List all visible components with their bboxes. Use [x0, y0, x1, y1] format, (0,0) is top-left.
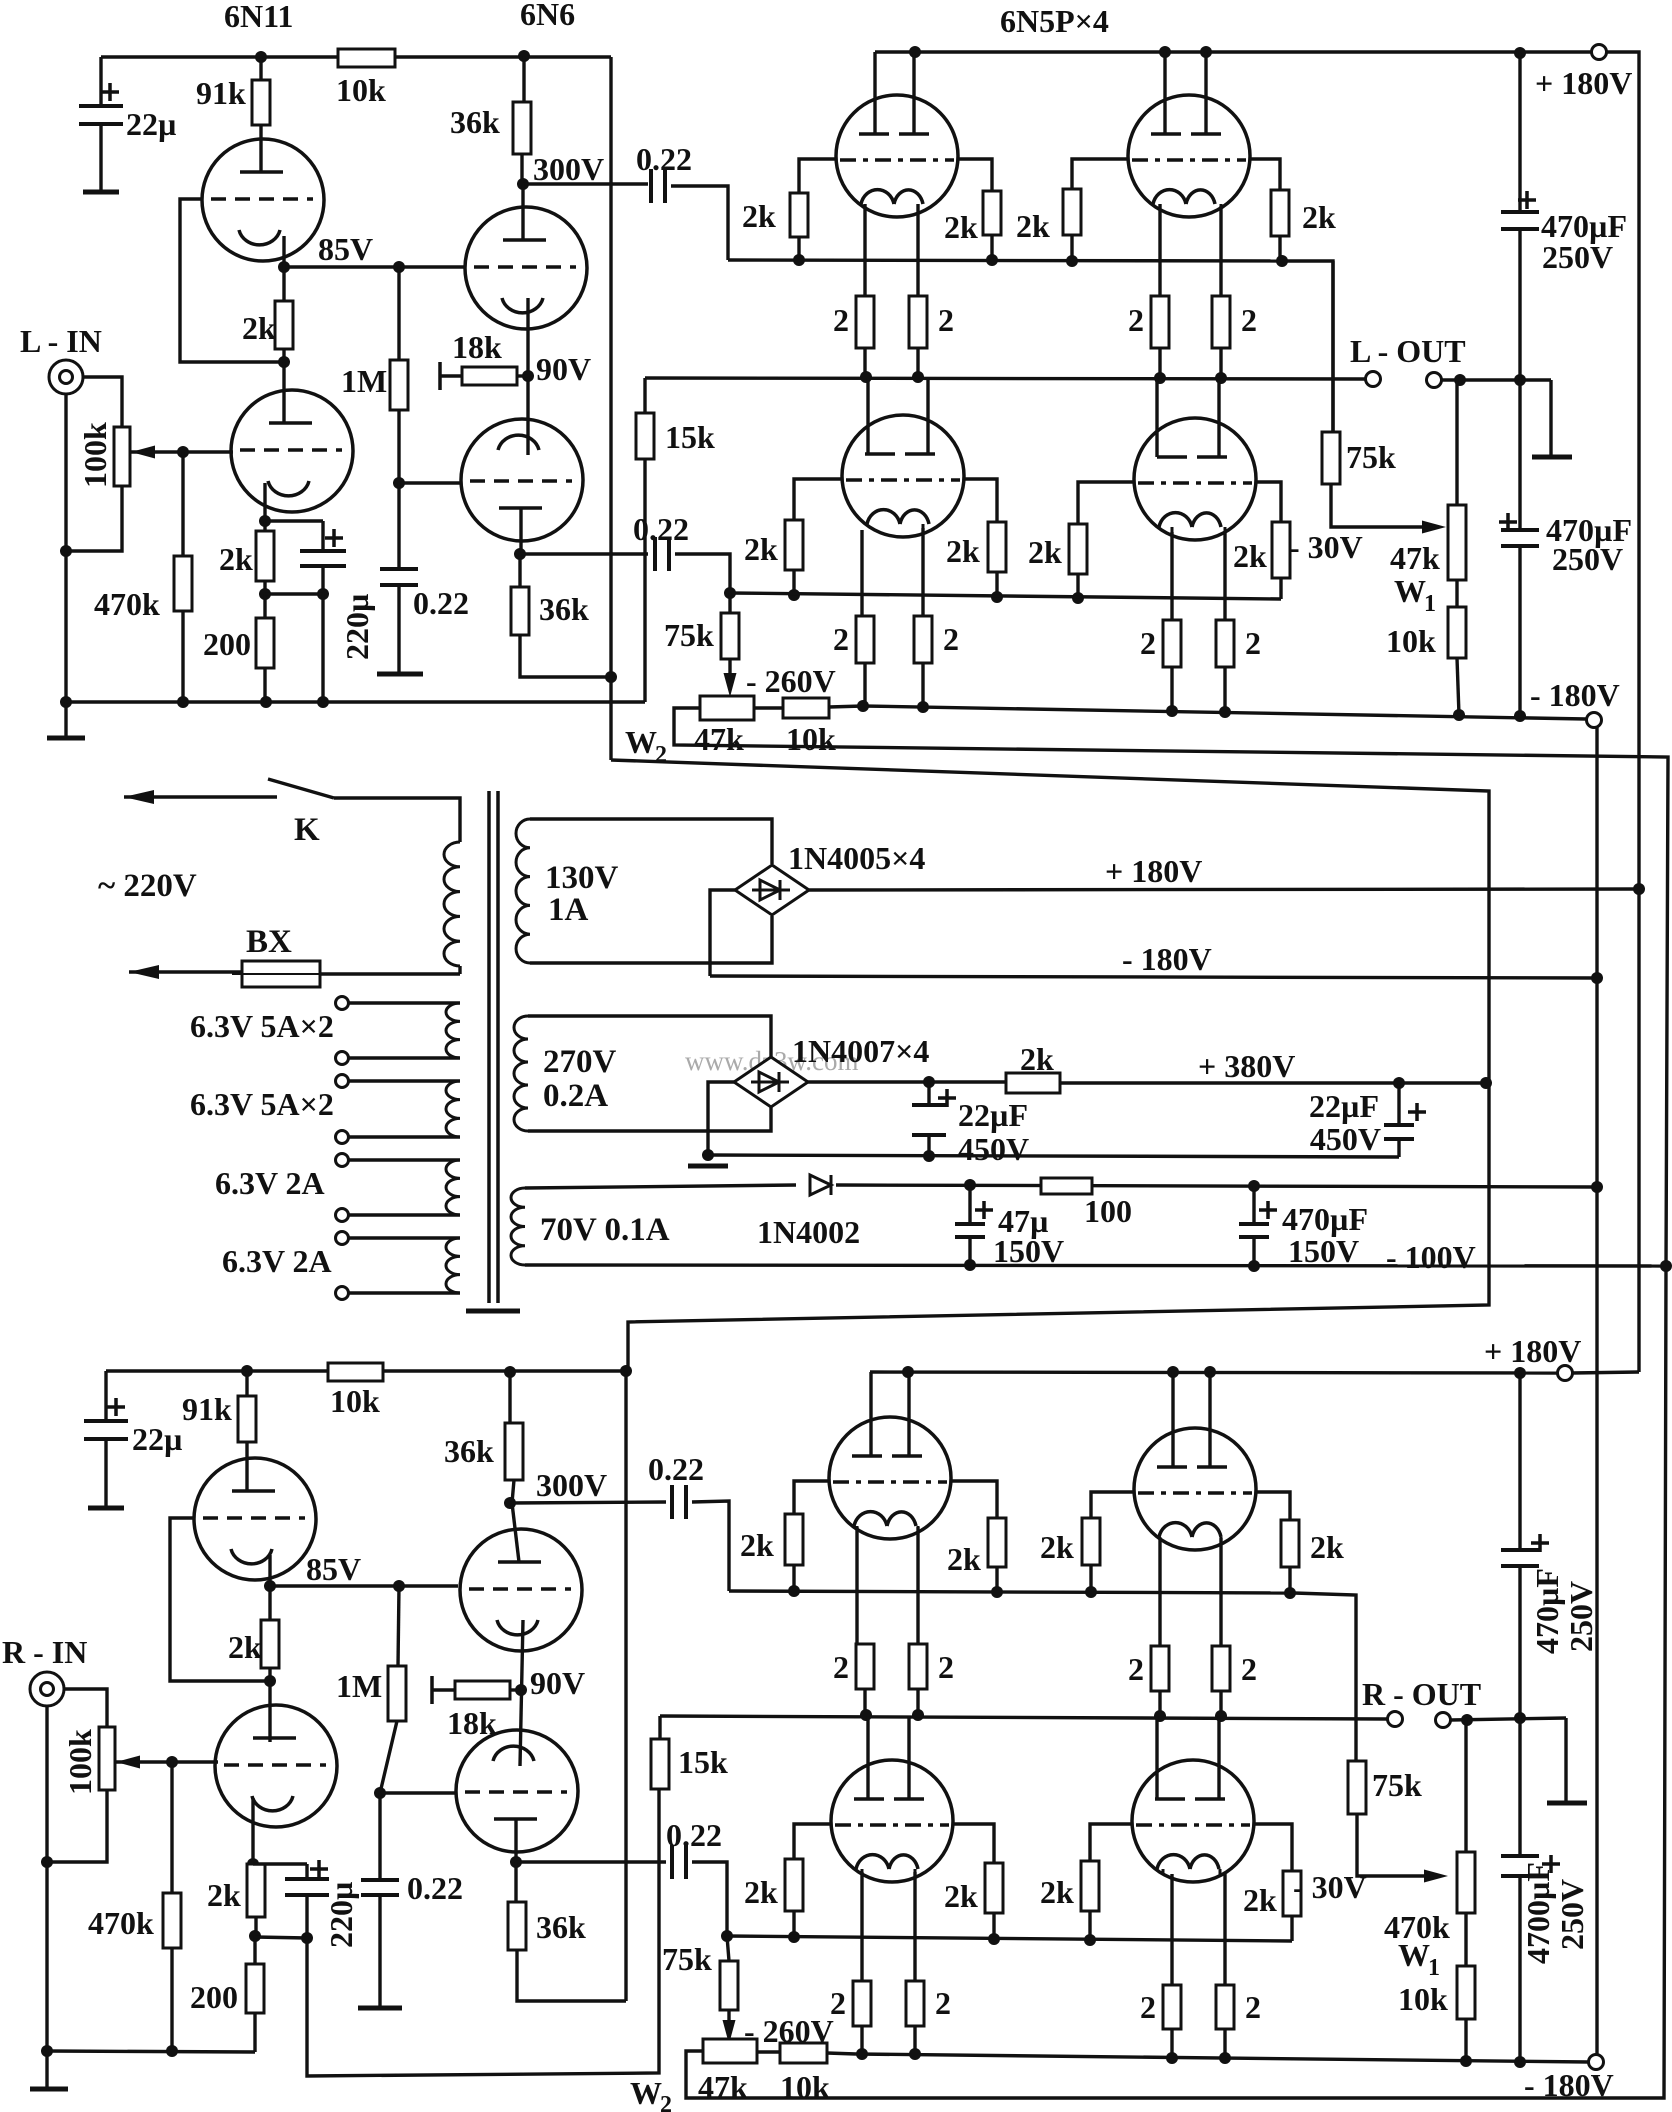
node 1M top (L)	[393, 261, 405, 273]
resistor 2 T3 left cathode (L)	[860, 530, 863, 616]
wire bus out to cap2	[1518, 380, 1521, 530]
node 1M top (R)	[393, 1580, 405, 1592]
svg-text:2: 2	[655, 742, 667, 768]
node out/bus (R)	[1514, 1712, 1526, 1724]
wire T3 plate stems to out line	[866, 378, 869, 454]
wire B+ top rail right segment (R)	[383, 1369, 626, 1372]
wire bottom rail (L)	[66, 700, 645, 703]
svg-text:W: W	[1394, 573, 1426, 609]
diode 1N4002	[810, 1175, 831, 1195]
wire bus cap to out line	[1518, 229, 1521, 380]
svg-text:W: W	[625, 724, 657, 760]
ground R-OUT	[1564, 1718, 1567, 1803]
wire L-IN down	[64, 394, 67, 551]
resistor 15k (R)	[658, 1716, 661, 1739]
node wiper/470k junction (R)	[166, 1756, 178, 1768]
ground input (L)	[64, 702, 67, 738]
wire 10k W1 to -180V rail (R)	[1464, 2019, 1467, 2061]
svg-text:250V: 250V	[1552, 541, 1623, 577]
resistor 2k R4 right	[1283, 1871, 1301, 1916]
resistor 2 T1 left cathode (L)	[863, 204, 866, 296]
svg-text:0.22: 0.22	[648, 1451, 704, 1487]
node 300V (R)	[512, 1480, 514, 1503]
capacitor 22u (R)	[104, 1371, 107, 1421]
wire L-IN to 100k top	[84, 377, 122, 427]
svg-text:1N4005×4: 1N4005×4	[788, 840, 925, 876]
svg-text:1: 1	[1424, 591, 1436, 617]
wire grid rail 1 (R)	[729, 1591, 1294, 1593]
wire V1b cathode junction (R)	[251, 1798, 254, 1864]
wire R-IN down	[45, 1706, 48, 1862]
wire B+ vertical (R block)	[624, 1371, 627, 2001]
wire L-OUT line	[645, 378, 1366, 379]
resistor 36k V2a plate (R)	[508, 1372, 511, 1423]
arrow mains bottom	[129, 970, 242, 973]
wire +380V line	[807, 1080, 1006, 1083]
resistor 18k (L)	[440, 374, 462, 377]
wire rail to 75k drop (R)	[1294, 1593, 1356, 1761]
svg-text:- 30V: - 30V	[1289, 529, 1363, 565]
tube T4 6N5P (L row2)	[1134, 418, 1256, 540]
wire T1 plate stems to rail	[873, 52, 876, 134]
capacitor 470uF negative supply	[1252, 1186, 1255, 1224]
node 470k bottom (R)	[166, 2045, 178, 2057]
svg-text:2k: 2k	[219, 541, 253, 577]
svg-text:2k: 2k	[944, 209, 978, 245]
svg-text:0.22: 0.22	[407, 1870, 463, 1906]
svg-text:1N4002: 1N4002	[757, 1214, 860, 1250]
resistor 2 T1 right cathode (L)	[916, 204, 919, 296]
node V1b plate junction	[282, 349, 285, 362]
wire T2 grid left to 2k	[1072, 159, 1128, 189]
wire L-OUT to bus	[1442, 378, 1551, 381]
wire 300V line to coupling cap	[523, 182, 648, 185]
node 200 bottom	[260, 696, 272, 708]
svg-text:220µ: 220µ	[323, 1882, 359, 1948]
potentiometer 100k (L)	[114, 427, 130, 486]
svg-text:470k: 470k	[88, 1905, 154, 1941]
wire R3 plate stems to out line	[866, 1716, 869, 1799]
resistor 2k T2 left (L)	[1063, 189, 1081, 235]
wire bottom rail (R)	[47, 2051, 255, 2052]
wire 1M to grid V2b	[397, 410, 400, 483]
svg-text:47k: 47k	[1390, 540, 1440, 576]
wire 100k bottom to R-IN line	[47, 1790, 107, 1862]
svg-text:200: 200	[203, 626, 251, 662]
node grid rail 2 junction (R)	[721, 1930, 733, 1942]
node rail/91k junction (R)	[241, 1365, 253, 1377]
bridge rectifier 1N4007 x4	[734, 1057, 808, 1107]
resistor 2 R2 left cathode	[1158, 1538, 1161, 1646]
terminal +180V (R)	[1558, 1366, 1573, 1381]
wire bus cap2 to -180V rail (R)	[1518, 1876, 1521, 2062]
node out/W1 drop	[1454, 374, 1466, 386]
resistor 10k W1 (R)	[1464, 1913, 1467, 1966]
capacitor 0.22 to ground (L)	[397, 483, 400, 569]
wire V2a cathode to 90V node	[526, 298, 529, 455]
svg-text:1N4007×4: 1N4007×4	[792, 1033, 929, 1069]
svg-text:- 30V: - 30V	[1293, 1869, 1367, 1905]
wire cap1 to grid rail 1 (L)	[671, 186, 728, 260]
svg-text:2: 2	[1241, 1651, 1257, 1687]
svg-text:450V: 450V	[958, 1131, 1029, 1167]
resistor 2k R2 right	[1281, 1520, 1299, 1567]
svg-text:2k: 2k	[1016, 208, 1050, 244]
wire 85V line (R)	[270, 1584, 458, 1587]
wire R3 grid left to 2k	[794, 1824, 831, 1859]
winding 6.3V no3	[336, 1154, 349, 1167]
svg-text:36k: 36k	[450, 104, 500, 140]
svg-text:47k: 47k	[698, 2069, 748, 2105]
svg-text:2: 2	[1128, 1651, 1144, 1687]
capacitor 22uF first	[927, 1082, 930, 1105]
wire bridge2 minus to ground	[708, 1082, 736, 1155]
jack R-IN	[30, 1672, 64, 1706]
wire junction drop to lower rail (R)	[307, 1789, 659, 2076]
node rail B+ feed (R)	[620, 1365, 632, 1377]
resistor 18k (R)	[432, 1688, 455, 1691]
wire W2-10k to -180V rail	[829, 706, 863, 707]
svg-text:2: 2	[935, 1985, 951, 2021]
resistor 2k T4 right (L)	[1272, 522, 1290, 578]
wire 10k W1 to -180V rail	[1457, 658, 1459, 715]
wire right bus (R)	[1518, 1373, 1521, 1550]
fuse BX	[458, 966, 461, 974]
svg-text:2k: 2k	[1040, 1529, 1074, 1565]
wire bus cap to out line (R)	[1518, 1566, 1521, 1718]
svg-text:10k: 10k	[786, 721, 836, 757]
svg-text:85V: 85V	[306, 1551, 361, 1587]
svg-text:91k: 91k	[182, 1391, 232, 1427]
wire -180V line PSU	[710, 976, 1597, 978]
wire B+ top rail left segment	[101, 55, 338, 58]
wire T4 grid left to 2k	[1078, 482, 1133, 524]
svg-text:200: 200	[190, 1979, 238, 2015]
node +380V at frame	[1480, 1077, 1492, 1089]
wire cap1 to grid rail 1 (R)	[692, 1501, 729, 1591]
resistor 2 T3 right cathode (L)	[921, 528, 924, 616]
wire W2-10k to -180V rail (R)	[827, 2053, 856, 2054]
wiper arrow 100k (L)	[131, 446, 155, 459]
wire +180V top rail (L)	[875, 50, 1592, 53]
wire T3 grid right to 2k	[964, 479, 997, 522]
wire T3 grid left to 2k	[794, 479, 842, 520]
wire R3 grid right to 2k	[953, 1824, 994, 1863]
svg-text:75k: 75k	[664, 617, 714, 653]
wire R4 grid right to 2k	[1254, 1824, 1292, 1871]
resistor 75k to W1 (R)	[1348, 1761, 1366, 1814]
svg-text:1M: 1M	[336, 1668, 382, 1704]
resistor 2k V1b plate load (L)	[282, 267, 285, 301]
wire grid rail 2 (R)	[727, 1936, 1292, 1941]
resistor 36k V2b plate load (L)	[518, 554, 521, 587]
wire W2 left to -100V drop	[674, 708, 1668, 2098]
capacitor 220u (R)	[253, 1862, 307, 1865]
node 470uF bottom	[1248, 1260, 1260, 1272]
wire R-OUT line	[660, 1716, 1388, 1719]
svg-text:- 180V: - 180V	[1122, 941, 1212, 977]
svg-text:2: 2	[1140, 625, 1156, 661]
node cathode junctions on R-OUT line	[860, 1709, 872, 1721]
terminal L-OUT a	[1366, 372, 1381, 387]
node bus on -180V rail	[1514, 710, 1526, 722]
transformer primary winding	[444, 842, 460, 966]
node rail/36k junction (R)	[504, 1366, 516, 1378]
svg-text:2k: 2k	[947, 1541, 981, 1577]
resistor 1M (R)	[398, 1586, 399, 1666]
resistor 36k V2a plate (L)	[522, 56, 525, 102]
resistor 470k (L)	[181, 452, 184, 556]
resistor 10k plate feed (L)	[338, 49, 395, 67]
svg-text:2k: 2k	[228, 1629, 262, 1665]
grid stopper bar 18k (L)	[438, 362, 442, 390]
wire 85V line (L)	[284, 265, 465, 268]
node bus hang (L)	[1514, 47, 1526, 59]
wire R-IN to 100k top (R)	[65, 1689, 107, 1727]
svg-text:0.22: 0.22	[633, 511, 689, 547]
wire -180V rail (R)	[856, 2054, 1589, 2062]
wire plate node to coupling cap 2 (R)	[516, 1860, 666, 1863]
svg-text:91k: 91k	[196, 75, 246, 111]
node out/W1 drop (R)	[1461, 1714, 1473, 1726]
resistor 2 R1 left cathode	[855, 1527, 858, 1644]
wire R1 plate stems to rail	[869, 1372, 872, 1456]
svg-text:6.3V 5A×2: 6.3V 5A×2	[190, 1086, 334, 1122]
svg-text:2k: 2k	[742, 198, 776, 234]
svg-text:470k: 470k	[94, 586, 160, 622]
svg-text:10k: 10k	[1398, 1981, 1448, 2017]
svg-text:10k: 10k	[780, 2069, 830, 2105]
capacitor 470uF upper (L)	[1501, 210, 1539, 214]
wire grid feedback V1a (R)	[170, 1518, 272, 1681]
wire B+ top rail left segment (R)	[106, 1369, 328, 1372]
node rail/36k junction	[518, 50, 530, 62]
svg-text:2k: 2k	[946, 533, 980, 569]
svg-text:100: 100	[1084, 1193, 1132, 1229]
svg-text:~ 220V: ~ 220V	[98, 868, 197, 904]
svg-text:1: 1	[1428, 1955, 1440, 1981]
resistor 2k cathode (R)	[247, 1864, 265, 1917]
capacitor 0.22 coupling row2 (R)	[670, 1845, 674, 1879]
node 22uF1 bottom	[923, 1150, 935, 1162]
resistor 2k R3 right	[985, 1863, 1003, 1913]
wire 1M to grid V2b (R)	[380, 1721, 397, 1793]
wiper arrow 100k (R)	[116, 1756, 140, 1769]
wire cap2 to grid rail 2 (L)	[675, 554, 730, 593]
svg-text:75k: 75k	[1346, 439, 1396, 475]
svg-text:2: 2	[1128, 302, 1144, 338]
capacitor 0.22 coupling row1 (L)	[649, 169, 653, 203]
svg-text:22µ: 22µ	[126, 106, 176, 142]
potentiometer 100k (R)	[99, 1727, 115, 1790]
svg-text:75k: 75k	[1372, 1767, 1422, 1803]
svg-text:- 180V: - 180V	[1530, 677, 1620, 713]
svg-text:1A: 1A	[548, 892, 589, 928]
node V1b plate junction (R)	[268, 1668, 271, 1681]
svg-text:- 100V: - 100V	[1386, 1239, 1476, 1275]
wire bus cap2 to -180V rail	[1518, 546, 1521, 716]
node 90V (R)	[515, 1684, 527, 1696]
node grid rail 2 junction	[724, 587, 736, 599]
node -100V at right drop	[1660, 1260, 1672, 1272]
resistor 10k plate feed (R)	[328, 1363, 383, 1381]
wire 75k to W1 wiper arrow (R)	[1357, 1814, 1440, 1876]
svg-text:BX: BX	[246, 924, 292, 960]
wire right bus (L)	[1518, 53, 1521, 212]
node rail/91k junction	[255, 51, 267, 63]
svg-text:10k: 10k	[1386, 623, 1436, 659]
svg-text:2k: 2k	[242, 310, 276, 346]
winding 270V box	[528, 1016, 771, 1058]
switch K	[124, 795, 277, 798]
wire V1b cathode junction	[263, 483, 266, 521]
svg-text:+ 180V: + 180V	[1484, 1333, 1581, 1369]
svg-text:2: 2	[833, 302, 849, 338]
resistor 15k (L)	[643, 378, 646, 413]
svg-text:6N11: 6N11	[224, 0, 293, 34]
svg-text:250V: 250V	[1542, 239, 1613, 275]
svg-text:2: 2	[938, 1649, 954, 1685]
capacitor 0.22 coupling row1 (R)	[670, 1485, 674, 1519]
tube V1a 6N11 (R)	[194, 1458, 316, 1580]
svg-text:2k: 2k	[744, 1874, 778, 1910]
wire rail to 75k drop	[1282, 261, 1333, 434]
wire grid rail 2 (L)	[730, 593, 1281, 599]
wire switch to primary	[334, 798, 460, 842]
svg-text:2: 2	[1245, 1989, 1261, 2025]
svg-text:2: 2	[1241, 302, 1257, 338]
terminal -180V (R)	[1589, 2055, 1604, 2070]
svg-text:220µ: 220µ	[339, 594, 375, 660]
node 85V (L)	[278, 261, 290, 273]
resistor 36k V2b plate load (R)	[514, 1862, 517, 1902]
resistor 2 R3 right cathode	[913, 1872, 916, 1981]
wire bus out to cap2 (R)	[1518, 1718, 1521, 1856]
svg-text:6.3V 5A×2: 6.3V 5A×2	[190, 1008, 334, 1044]
terminal R-OUT a	[1388, 1712, 1403, 1727]
resistor 2 T4 right cathode (L)	[1223, 532, 1226, 620]
wire R2 grid right to 2k	[1256, 1492, 1290, 1520]
bridge rectifier 1N4005 x4	[735, 865, 809, 915]
svg-text:36k: 36k	[539, 591, 589, 627]
svg-text:W: W	[630, 2075, 662, 2111]
svg-text:2k: 2k	[1020, 1041, 1054, 1077]
node 22uF1 top	[923, 1076, 935, 1088]
svg-text:2k: 2k	[740, 1527, 774, 1563]
resistor 2k T1 right (L)	[983, 191, 1001, 235]
node 470k bottom	[177, 696, 189, 708]
wire -180V drop to R channel	[1595, 727, 1598, 2055]
svg-text:6.3V 2A: 6.3V 2A	[222, 1243, 332, 1279]
svg-text:K: K	[294, 812, 320, 848]
grid stopper bar 18k (R)	[430, 1676, 434, 1704]
capacitor 22uF second	[1393, 1077, 1405, 1089]
svg-text:85V: 85V	[318, 231, 373, 267]
node 10k W1 bottom on rail	[1453, 709, 1465, 721]
tube V1b 6N11 second triode (L)	[282, 362, 285, 424]
potentiometer W1 470k (R)	[1464, 1720, 1467, 1852]
wire plate node to coupling cap 2 (L)	[520, 552, 648, 555]
wire grid rail 1 (L)	[728, 260, 1282, 261]
wire wiper to grid V1b (R)	[116, 1760, 218, 1763]
resistor 2 R3 left cathode	[860, 1872, 863, 1981]
wire V2a cathode to 90V node (R)	[520, 1620, 523, 1766]
resistor 2k T2 right (L)	[1271, 190, 1289, 236]
svg-text:450V: 450V	[1310, 1121, 1381, 1157]
potentiometer W2 47k (R)	[703, 2039, 757, 2063]
node bus on -180V rail (R)	[1514, 2056, 1526, 2068]
node V2b plate junction	[519, 508, 522, 554]
resistor 10k W2 (L)	[754, 706, 783, 709]
resistor 2k T3 right (L)	[988, 522, 1006, 572]
wire 36k2 to B+ vertical (R)	[517, 1950, 626, 2001]
wire 91k to plate V1a	[259, 125, 262, 172]
svg-text:10k: 10k	[330, 1383, 380, 1419]
wire -100V bottom line	[525, 1265, 1666, 1266]
wire T2 grid right to 2k	[1250, 159, 1280, 190]
capacitor 0.22 to ground (R)	[378, 1793, 381, 1880]
node 470uF top	[1248, 1180, 1260, 1192]
resistor 200 (L)	[263, 594, 266, 618]
svg-text:2k: 2k	[1028, 534, 1062, 570]
node R-IN/100k bottom	[41, 1856, 53, 1868]
resistor 91k (L)	[259, 57, 262, 80]
wire bridge1 minus to -180V line	[710, 890, 735, 976]
svg-text:130V: 130V	[545, 860, 619, 896]
wire R4 grid left to 2k	[1090, 1824, 1132, 1861]
svg-text:R - IN: R - IN	[2, 1634, 87, 1670]
wire T1 grid right to 2k	[958, 159, 992, 191]
resistor 75k bias row2 (R)	[727, 1936, 729, 1961]
tube R3 6N5P (R row2)	[831, 1760, 953, 1882]
resistor 200 (R)	[253, 1936, 256, 1964]
svg-text:270V: 270V	[543, 1044, 617, 1080]
capacitor 4700uF (R)	[1501, 1854, 1539, 1858]
node 90V (L)	[522, 370, 534, 382]
node 10k W1 bottom on rail (R)	[1460, 2055, 1472, 2067]
winding 6.3V no2	[336, 1075, 349, 1088]
resistor 2k R4 left	[1081, 1861, 1099, 1911]
tube V1b 6N11 (R)	[268, 1681, 271, 1742]
tube T2 6N5P (L row1)	[1128, 95, 1250, 217]
arrow to W2 wiper (L)	[728, 659, 731, 688]
resistor 2k R3 left	[785, 1859, 803, 1911]
resistor 2 R4 right cathode	[1223, 1874, 1226, 1985]
transformer core	[487, 791, 491, 1303]
svg-text:0.22: 0.22	[636, 141, 692, 177]
wire L-IN to bottom rail	[64, 551, 67, 702]
tube V2b 6N6 inverted (R)	[456, 1730, 578, 1852]
node 220u drop bottom	[317, 696, 329, 708]
svg-text:6N6: 6N6	[520, 0, 575, 32]
resistor 91k (R)	[245, 1371, 248, 1396]
ground 0.22 (L)	[397, 585, 400, 674]
capacitor 22u (L)	[99, 57, 102, 106]
resistor 2k cathode (L)	[263, 521, 266, 531]
ground 0.22 (R)	[378, 1895, 381, 2008]
terminal L-OUT b	[1427, 373, 1442, 388]
svg-text:6N5P×4: 6N5P×4	[1000, 3, 1109, 39]
resistor 100	[1041, 1178, 1092, 1194]
resistor 10k W1 (L)	[1455, 580, 1458, 607]
potentiometer W2 47k (L)	[700, 696, 754, 720]
svg-text:22µF: 22µF	[958, 1097, 1028, 1133]
svg-text:0.2A: 0.2A	[543, 1078, 608, 1114]
ground 22u (R)	[88, 1506, 124, 1511]
resistor 2k +380V filter	[1006, 1073, 1060, 1093]
wire +180V frame corner (R)	[1572, 1372, 1639, 1373]
svg-text:300V: 300V	[533, 151, 604, 187]
